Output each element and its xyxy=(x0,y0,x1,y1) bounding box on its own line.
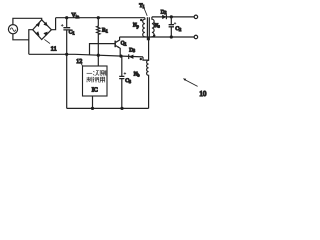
svg-text:10: 10 xyxy=(199,90,207,98)
bridge diode upper-right xyxy=(43,22,47,26)
bridge diode upper-left xyxy=(36,23,40,27)
wire Vin rail xyxy=(56,17,145,19)
node primary polarity dot xyxy=(140,19,142,21)
output terminal bottom xyxy=(194,35,198,39)
wire collector to transformer primary bottom, main horizontal xyxy=(120,36,195,38)
bridge diode lower-left xyxy=(35,31,39,35)
svg-text:Np: Np xyxy=(133,23,139,29)
svg-text:R1: R1 xyxy=(102,27,108,33)
kanji 用 xyxy=(100,77,105,83)
kanji 側 xyxy=(100,70,106,76)
node C1 top junction xyxy=(65,16,68,19)
svg-text:D3: D3 xyxy=(129,47,135,53)
transformer secondary winding Ns xyxy=(152,17,154,37)
wire C1 bottom down to rail xyxy=(66,30,68,109)
node C3 bottom rail junction xyxy=(120,107,123,110)
transistor Q1 xyxy=(114,41,116,48)
IC box (primary side control IC 12) xyxy=(83,66,108,96)
wire AC bottom lead xyxy=(13,34,29,40)
svg-text:11: 11 xyxy=(51,46,57,53)
kanji 一 xyxy=(87,72,93,74)
node secondary polarity dot xyxy=(153,34,155,36)
kanji 次 xyxy=(93,71,99,76)
svg-text:D2: D2 xyxy=(161,9,167,15)
wire IC bottom stub xyxy=(92,96,94,108)
bridge diode lower-right xyxy=(43,32,47,36)
capacitor C2 xyxy=(170,17,172,25)
capacitor C3 xyxy=(121,56,123,76)
svg-text:C1: C1 xyxy=(69,30,75,36)
svg-text:Q1: Q1 xyxy=(121,41,127,47)
transformer primary winding Np xyxy=(143,18,145,37)
IC text line2: 制御用 (hand drawn kanji) xyxy=(87,77,105,83)
IC text line1: 一次側 (hand drawn kanji) xyxy=(87,70,106,76)
bridge rectifier 11 diamond xyxy=(33,20,52,40)
node return bus / C1 xyxy=(65,53,68,56)
node Nb polarity dot xyxy=(140,58,142,60)
node Q1 emitter / C3 / D3 junction xyxy=(119,55,122,58)
node R1 bottom bus junction xyxy=(97,54,100,57)
output terminal top xyxy=(194,15,198,19)
wire C1 branch upper xyxy=(66,18,68,28)
wire bottom rail xyxy=(67,107,149,109)
capacitor C1 xyxy=(63,28,70,30)
node IC bottom rail junction xyxy=(91,107,94,110)
wire bridge left vertex down to return bus xyxy=(29,30,33,55)
diode D3 xyxy=(129,55,134,59)
diode D2 xyxy=(162,15,166,19)
transformer T1 core xyxy=(147,17,149,40)
svg-text:IC: IC xyxy=(92,87,98,93)
kanji 制 xyxy=(87,77,92,83)
wire bridge right vertex up to Vin rail xyxy=(51,18,55,30)
svg-text:Nb: Nb xyxy=(134,72,140,78)
svg-text:Ns: Ns xyxy=(154,23,160,29)
wire D3 to Nb winding elbow xyxy=(143,57,149,60)
node C2 top junction xyxy=(170,15,173,18)
svg-text:C3: C3 xyxy=(125,78,131,84)
wire secondary top to output xyxy=(152,16,194,18)
wire AC top to bridge top vertex xyxy=(13,18,42,24)
node C2 bottom junction xyxy=(170,35,173,38)
resistor R1 xyxy=(97,18,100,66)
transformer aux winding Nb xyxy=(147,37,149,108)
wire Q1 base line xyxy=(90,44,115,55)
svg-text:C2: C2 xyxy=(175,26,181,32)
svg-text:Vin: Vin xyxy=(72,13,80,19)
kanji 御 xyxy=(93,77,99,83)
wire return bus xyxy=(29,54,143,57)
AC source xyxy=(8,25,17,34)
node R1 top xyxy=(97,16,100,19)
